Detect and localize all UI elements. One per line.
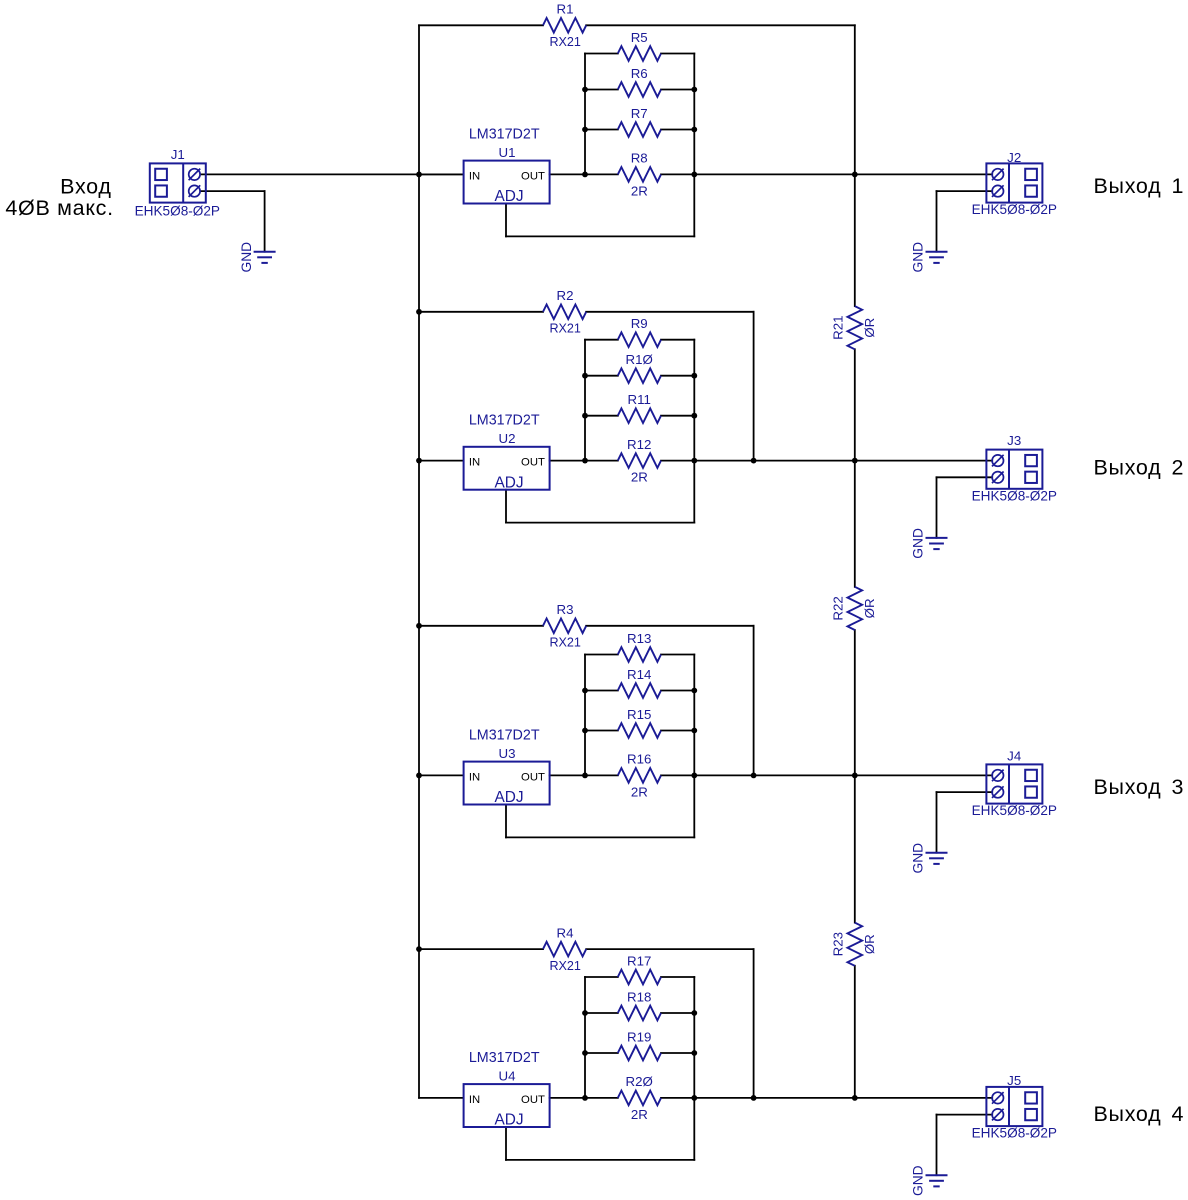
- wire R10 right lead: [661, 375, 694, 377]
- wire R18 right lead: [661, 1012, 694, 1014]
- wire R20 left lead: [585, 1097, 618, 1099]
- junction left bus / R3 feed row: [416, 623, 422, 629]
- junction bank right rail row 3 channel 2: [691, 413, 697, 419]
- wire R19 right lead: [661, 1052, 694, 1054]
- svg-text:R13: R13: [627, 631, 651, 646]
- resistor R5: [618, 30, 661, 61]
- wire output row channel 1 to connector: [694, 173, 992, 175]
- svg-text:R15: R15: [627, 707, 651, 722]
- junction bank left rail / OUT row channel 4: [582, 1095, 588, 1101]
- svg-text:R19: R19: [627, 1029, 651, 1044]
- junction bank right rail row 3 channel 3: [691, 728, 697, 734]
- junction bank right rail row 2 channel 1: [691, 87, 697, 93]
- node label output: Выход 1: [1094, 174, 1184, 198]
- svg-text:EHK5Ø8-Ø2P: EHK5Ø8-Ø2P: [972, 1126, 1057, 1141]
- resistor R1 value RX21: [543, 2, 586, 49]
- wire net R1 feed row right lead: [586, 24, 855, 26]
- wire U1 IN pin lead: [419, 173, 464, 175]
- svg-text:R5: R5: [631, 30, 648, 45]
- wire R13 right lead: [661, 654, 694, 656]
- wire U4 IN pin lead: [419, 1097, 464, 1099]
- resistor R10: [618, 352, 661, 383]
- svg-text:R17: R17: [627, 953, 651, 968]
- node label output: Выход 3: [1094, 775, 1184, 799]
- wire net R1 feed row left lead: [419, 24, 543, 26]
- wire U3 ADJ pin (vertical drop): [505, 805, 507, 838]
- wire resistor bank right rail channel 3: [693, 655, 695, 838]
- svg-text:1: 1: [1172, 174, 1184, 198]
- svg-text:R21: R21: [831, 315, 846, 339]
- wire J2 pin 2 to ground (horizontal): [937, 190, 993, 192]
- svg-text:U2: U2: [499, 431, 516, 446]
- svg-text:R4: R4: [557, 925, 574, 940]
- junction bank right rail row 2 channel 4: [691, 1010, 697, 1016]
- wire R14 left lead: [585, 690, 618, 692]
- wire resistor bank left rail channel 1: [584, 54, 586, 175]
- junction left bus / R2 feed row: [416, 309, 422, 315]
- wire R20 right lead: [661, 1097, 694, 1099]
- resistor R4 value RX21: [543, 925, 586, 972]
- svg-text:2R: 2R: [631, 183, 648, 198]
- wire net R2 output drop (vertical): [753, 312, 755, 461]
- resistor R13: [618, 631, 661, 662]
- junction bank left rail row 2 channel 4: [582, 1010, 588, 1016]
- junction bank right rail / OUT row channel 4: [691, 1095, 697, 1101]
- wire output row channel 3 to connector: [694, 774, 992, 776]
- wire R11 right lead: [661, 415, 694, 417]
- junction left bus / R4 feed row: [416, 946, 422, 952]
- svg-text:U4: U4: [499, 1068, 516, 1083]
- resistor R9: [618, 316, 661, 347]
- resistor R20 value 2R: [618, 1074, 661, 1122]
- wire right output bus segment 4: [854, 966, 856, 1098]
- wire U2 ADJ feedback (horizontal): [506, 522, 694, 524]
- junction right bus / OUT row channel 2: [852, 458, 858, 464]
- svg-text:R12: R12: [627, 437, 651, 452]
- wire J3 pin 2 to ground (horizontal): [937, 476, 993, 478]
- wire net R2 feed row right lead: [586, 311, 753, 313]
- svg-text:2: 2: [1172, 456, 1184, 480]
- junction bank left rail row 2 channel 3: [582, 688, 588, 694]
- svg-text:ØR: ØR: [862, 318, 877, 338]
- svg-text:R16: R16: [627, 752, 651, 767]
- svg-text:EHK5Ø8-Ø2P: EHK5Ø8-Ø2P: [135, 203, 220, 218]
- wire R14 right lead: [661, 690, 694, 692]
- junction bank right rail / OUT row channel 2: [691, 458, 697, 464]
- wire J1 pin 1 to input bus: [200, 173, 463, 175]
- wire right output bus segment 3: [854, 630, 856, 923]
- wire resistor bank right rail channel 4: [693, 977, 695, 1160]
- wire net R3 output drop (vertical): [753, 626, 755, 776]
- svg-text:R22: R22: [831, 596, 846, 620]
- junction bank left rail / OUT row channel 1: [582, 172, 588, 178]
- wire R9 left lead: [585, 339, 618, 341]
- svg-text:U1: U1: [499, 145, 516, 160]
- regulator U2 LM317D2T: [464, 413, 550, 492]
- wire right output bus segment 1: [854, 25, 856, 306]
- svg-text:J2: J2: [1007, 150, 1021, 165]
- junction bank left rail / OUT row channel 3: [582, 773, 588, 779]
- resistor R22 value 0R (vertical): [831, 587, 878, 630]
- junction bank left rail row 3 channel 3: [582, 728, 588, 734]
- connector J1 EHK508-02P: [135, 147, 220, 218]
- wire J5 pin 2 to ground (vertical): [936, 1115, 938, 1176]
- wire U4 OUT pin lead: [550, 1097, 585, 1099]
- resistor R19: [618, 1029, 661, 1060]
- svg-text:Выход: Выход: [1094, 775, 1162, 799]
- wire U3 OUT pin lead: [550, 774, 585, 776]
- resistor R21 value 0R (vertical): [831, 306, 878, 349]
- resistor R2 value RX21: [543, 288, 586, 335]
- node label output: Выход 2: [1094, 456, 1184, 480]
- regulator U4 LM317D2T: [464, 1050, 550, 1129]
- ground GND at J1: [239, 242, 276, 273]
- wire R15 right lead: [661, 730, 694, 732]
- svg-text:Вход: Вход: [60, 174, 111, 198]
- wire net R4 feed row right lead: [586, 948, 753, 950]
- wire U2 ADJ pin (vertical drop): [505, 490, 507, 523]
- wire R16 left lead: [585, 774, 618, 776]
- svg-text:R23: R23: [831, 932, 846, 956]
- connector J5 EHK508-02P: [972, 1073, 1057, 1141]
- svg-text:R11: R11: [627, 392, 650, 407]
- svg-text:4ØВ макс.: 4ØВ макс.: [5, 196, 113, 220]
- wire U2 IN pin lead: [419, 460, 464, 462]
- svg-text:3: 3: [1172, 775, 1184, 799]
- wire R9 right lead: [661, 339, 694, 341]
- svg-text:R3: R3: [557, 602, 574, 617]
- regulator U3 LM317D2T: [464, 727, 550, 806]
- ground GND at J5: [911, 1165, 948, 1196]
- junction left bus / U1 IN row: [416, 172, 422, 178]
- svg-text:R7: R7: [631, 106, 648, 121]
- resistor R17: [618, 953, 661, 984]
- wire R5 left lead: [585, 53, 618, 55]
- svg-text:EHK5Ø8-Ø2P: EHK5Ø8-Ø2P: [972, 803, 1057, 818]
- wire R16 right lead: [661, 774, 694, 776]
- svg-text:EHK5Ø8-Ø2P: EHK5Ø8-Ø2P: [972, 202, 1057, 217]
- regulator U1 LM317D2T: [464, 126, 550, 205]
- wire resistor bank left rail channel 2: [584, 340, 586, 461]
- node label output: Выход 4: [1094, 1102, 1184, 1126]
- svg-text:R8: R8: [631, 151, 648, 166]
- wire resistor bank left rail channel 4: [584, 977, 586, 1098]
- wire R18 left lead: [585, 1012, 618, 1014]
- junction right bus / OUT row channel 4: [852, 1095, 858, 1101]
- svg-text:R6: R6: [631, 66, 648, 81]
- svg-text:Выход: Выход: [1094, 174, 1162, 198]
- svg-text:J3: J3: [1007, 433, 1021, 448]
- wire J1 pin 2 to ground (horizontal): [200, 190, 264, 192]
- wire U4 ADJ feedback (horizontal): [506, 1159, 694, 1161]
- svg-text:LM317D2T: LM317D2T: [469, 126, 540, 142]
- wire net R4 feed row left lead: [419, 948, 543, 950]
- resistor R12 value 2R: [618, 437, 661, 485]
- wire J2 pin 2 to ground (vertical): [936, 191, 938, 252]
- wire J4 pin 2 to ground (horizontal): [937, 791, 993, 793]
- svg-text:RX21: RX21: [549, 959, 581, 973]
- svg-text:R9: R9: [631, 316, 648, 331]
- wire net R3 feed row right lead: [586, 625, 753, 627]
- junction bank right rail / OUT row channel 3: [691, 773, 697, 779]
- wire J3 pin 2 to ground (vertical): [936, 477, 938, 538]
- svg-text:LM317D2T: LM317D2T: [469, 413, 540, 429]
- junction left bus / U3 IN row: [416, 773, 422, 779]
- svg-text:2R: 2R: [631, 784, 648, 799]
- connector J2 EHK508-02P: [972, 150, 1057, 217]
- wire R8 left lead: [585, 173, 618, 175]
- svg-text:RX21: RX21: [549, 322, 581, 336]
- wire output row channel 4 to connector: [694, 1097, 992, 1099]
- svg-text:R18: R18: [627, 989, 651, 1004]
- junction bank right rail row 2 channel 2: [691, 373, 697, 379]
- resistor R23 value 0R (vertical): [831, 923, 878, 966]
- junction R3 drop / OUT row channel 3: [751, 773, 757, 779]
- svg-text:ØR: ØR: [862, 598, 877, 618]
- wire R7 left lead: [585, 129, 618, 131]
- svg-text:4: 4: [1172, 1102, 1184, 1126]
- wire R11 left lead: [585, 415, 618, 417]
- resistor R14: [618, 667, 661, 698]
- wire U1 OUT pin lead: [550, 173, 585, 175]
- junction bank left rail row 3 channel 1: [582, 127, 588, 133]
- svg-text:ØR: ØR: [862, 934, 877, 954]
- wire R12 left lead: [585, 460, 618, 462]
- junction right bus / OUT row channel 1: [852, 172, 858, 178]
- wire resistor bank right rail channel 1: [693, 54, 695, 237]
- svg-text:RX21: RX21: [549, 636, 581, 650]
- node label input: Вход 40В макс.: [5, 174, 113, 220]
- junction bank left rail / OUT row channel 2: [582, 458, 588, 464]
- resistor R7: [618, 106, 661, 137]
- wire U3 ADJ feedback (horizontal): [506, 836, 694, 838]
- wire J5 pin 2 to ground (horizontal): [937, 1114, 993, 1116]
- wire left input bus (vertical): [418, 25, 420, 1098]
- wire R8 right lead: [661, 173, 694, 175]
- connector J3 EHK508-02P: [972, 433, 1057, 504]
- wire output row channel 2 to connector: [694, 460, 992, 462]
- junction left bus / U2 IN row: [416, 458, 422, 464]
- resistor R3 value RX21: [543, 602, 586, 649]
- resistor R18: [618, 989, 661, 1020]
- svg-text:Выход: Выход: [1094, 1102, 1162, 1126]
- junction R2 drop / OUT row channel 2: [751, 458, 757, 464]
- wire R6 left lead: [585, 89, 618, 91]
- resistor R15: [618, 707, 661, 738]
- wire R10 left lead: [585, 375, 618, 377]
- wire R7 right lead: [661, 129, 694, 131]
- junction bank left rail row 3 channel 4: [582, 1050, 588, 1056]
- ground GND at J2: [911, 242, 948, 273]
- ground GND at J4: [911, 843, 948, 874]
- junction right bus / OUT row channel 3: [852, 773, 858, 779]
- wire right output bus segment 2: [854, 349, 856, 587]
- wire U2 OUT pin lead: [550, 460, 585, 462]
- wire net R3 feed row left lead: [419, 625, 543, 627]
- svg-text:Выход: Выход: [1094, 456, 1162, 480]
- junction bank right rail row 2 channel 3: [691, 688, 697, 694]
- wire R6 right lead: [661, 89, 694, 91]
- wire J1 pin 2 to ground (vertical): [264, 191, 266, 252]
- svg-text:2R: 2R: [631, 470, 648, 485]
- wire resistor bank left rail channel 3: [584, 655, 586, 776]
- junction bank left rail row 2 channel 2: [582, 373, 588, 379]
- junction R4 drop / OUT row channel 4: [751, 1095, 757, 1101]
- wire J4 pin 2 to ground (vertical): [936, 792, 938, 853]
- svg-text:RX21: RX21: [549, 35, 581, 49]
- wire R12 right lead: [661, 460, 694, 462]
- wire R19 left lead: [585, 1052, 618, 1054]
- svg-text:LM317D2T: LM317D2T: [469, 727, 540, 743]
- svg-text:2R: 2R: [631, 1107, 648, 1122]
- wire R15 left lead: [585, 730, 618, 732]
- svg-text:J1: J1: [171, 147, 185, 162]
- svg-text:R2: R2: [557, 288, 574, 303]
- wire net R4 output drop (vertical): [753, 949, 755, 1098]
- ground GND at J3: [911, 528, 948, 559]
- wire U3 IN pin lead: [419, 774, 464, 776]
- wire U1 ADJ pin (vertical drop): [505, 204, 507, 237]
- resistor R11: [618, 392, 661, 423]
- svg-text:U3: U3: [499, 746, 516, 761]
- wire R17 left lead: [585, 976, 618, 978]
- svg-text:R1Ø: R1Ø: [626, 352, 653, 367]
- resistor R16 value 2R: [618, 752, 661, 800]
- connector J4 EHK508-02P: [972, 749, 1057, 819]
- wire U4 ADJ pin (vertical drop): [505, 1127, 507, 1160]
- svg-text:R2Ø: R2Ø: [626, 1074, 653, 1089]
- junction bank right rail / OUT row channel 1: [691, 172, 697, 178]
- svg-text:J5: J5: [1007, 1073, 1021, 1088]
- resistor R8 value 2R: [618, 151, 661, 199]
- svg-text:EHK5Ø8-Ø2P: EHK5Ø8-Ø2P: [972, 488, 1057, 503]
- wire U1 ADJ feedback (horizontal): [506, 235, 694, 237]
- junction bank right rail row 3 channel 1: [691, 127, 697, 133]
- svg-text:R14: R14: [627, 667, 651, 682]
- wire R5 right lead: [661, 53, 694, 55]
- svg-text:LM317D2T: LM317D2T: [469, 1050, 540, 1066]
- wire resistor bank right rail channel 2: [693, 340, 695, 523]
- svg-text:J4: J4: [1007, 749, 1021, 764]
- wire R13 left lead: [585, 654, 618, 656]
- svg-text:R1: R1: [557, 2, 574, 17]
- resistor R6: [618, 66, 661, 97]
- junction bank left rail row 2 channel 1: [582, 87, 588, 93]
- wire net R2 feed row left lead: [419, 311, 543, 313]
- junction bank left rail row 3 channel 2: [582, 413, 588, 419]
- junction bank right rail row 3 channel 4: [691, 1050, 697, 1056]
- wire R17 right lead: [661, 976, 694, 978]
